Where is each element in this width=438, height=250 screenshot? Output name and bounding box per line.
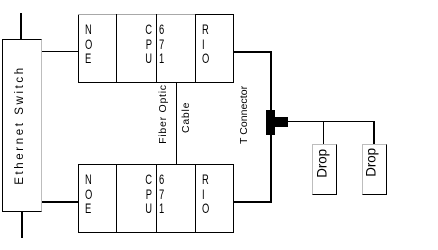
top 671 label	[159, 22, 164, 66]
Drop box 1	[312, 144, 337, 195]
wire: trunk into bottom RIO	[234, 201, 272, 203]
bottom rack divider 1	[116, 164, 117, 232]
top NOE label	[85, 22, 92, 66]
wire: trunk from top RIO going right	[234, 51, 272, 53]
top CPU label	[131, 22, 151, 66]
top rack gray top edge	[78, 14, 195, 15]
top rack divider 2	[156, 14, 157, 83]
wire: corner stub to Drop 2	[373, 121, 375, 145]
wire: trunk vertical	[270, 51, 272, 203]
Drop 2 label	[364, 149, 378, 177]
Drop 1 label	[314, 150, 328, 178]
Fiber Optic label	[157, 84, 169, 144]
bottom rack box	[78, 164, 234, 233]
T connector nub	[275, 117, 288, 126]
top rack divider 3	[195, 14, 196, 83]
Ethernet Switch label	[13, 65, 27, 185]
top rack divider 1	[116, 14, 117, 83]
Drop box 2	[362, 144, 387, 195]
wire: drop branch horizontal	[288, 121, 375, 122]
bottom 671 label	[159, 172, 164, 216]
Cable label	[180, 103, 192, 133]
bottom rack divider 3	[195, 164, 196, 232]
Ethernet Switch box	[2, 39, 42, 212]
wire: fiber optic cable vertical	[176, 83, 177, 165]
wire: Ethernet Switch to top NOE	[42, 51, 79, 53]
wire: stub to Drop 1	[323, 122, 324, 145]
wire: Ethernet Switch to bottom NOE	[42, 201, 79, 203]
top RIO label	[202, 22, 209, 66]
T Connector label	[238, 88, 250, 144]
wire: bottom stub below Ethernet Switch	[21, 212, 23, 239]
wire: top stub above Ethernet Switch	[20, 13, 22, 39]
bottom CPU label	[131, 172, 151, 216]
top rack box	[78, 14, 234, 83]
T connector body	[266, 110, 275, 135]
bottom RIO label	[202, 172, 209, 216]
top rack black top edge over RIO	[195, 14, 234, 15]
bottom rack divider 2	[156, 164, 157, 232]
bottom NOE label	[85, 172, 92, 216]
